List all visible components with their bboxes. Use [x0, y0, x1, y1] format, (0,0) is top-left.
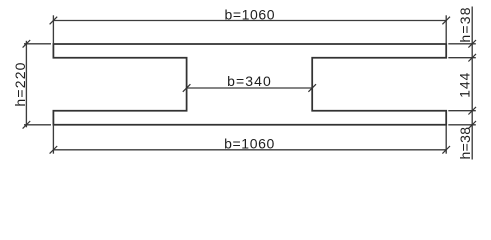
svg-text:b=1060: b=1060	[224, 7, 275, 23]
svg-text:144: 144	[456, 72, 472, 98]
svg-text:h=38: h=38	[457, 6, 473, 42]
svg-text:h=38: h=38	[457, 127, 473, 160]
svg-text:h=220: h=220	[12, 61, 28, 106]
svg-text:b=340: b=340	[227, 73, 272, 89]
svg-text:b=1060: b=1060	[224, 136, 275, 152]
